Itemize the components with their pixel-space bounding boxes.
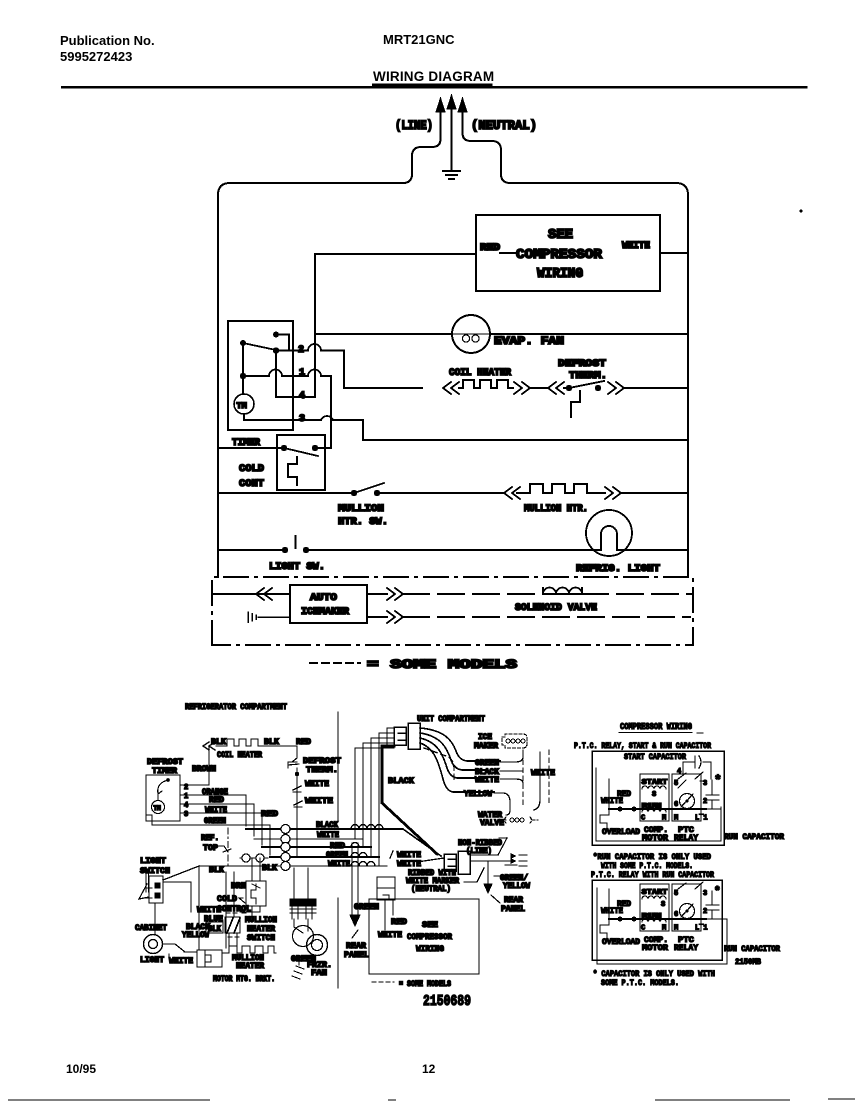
svg-text:= SOME MODELS: = SOME MODELS	[399, 980, 451, 989]
refrig light filament	[601, 526, 617, 550]
svg-text:P.T.C. RELAY WITH RUN CAPACITO: P.T.C. RELAY WITH RUN CAPACITOR	[591, 870, 715, 880]
svg-text:BRN: BRN	[231, 882, 246, 891]
wire line-side from plug to left rail	[218, 128, 441, 577]
box SEE COMPRESSOR WIRING	[476, 215, 660, 291]
inner return loop b1	[596, 768, 721, 841]
terminal 4 wire red	[183, 804, 254, 836]
evap fan motor	[452, 315, 490, 353]
timer terminal 4 wire	[276, 351, 315, 398]
neutral pointer line	[464, 868, 484, 882]
svg-text:WHITE: WHITE	[169, 957, 193, 966]
light switch contacts	[282, 547, 288, 553]
mullion heater switch contacts	[351, 490, 357, 496]
svg-text:M: M	[662, 815, 666, 823]
svg-text:WHITE: WHITE	[197, 906, 221, 915]
svg-text:COIL HEATER: COIL HEATER	[449, 367, 512, 379]
light switch actuator	[295, 536, 297, 548]
riser to connector pin2	[379, 733, 394, 866]
svg-text:= SOME MODELS: = SOME MODELS	[367, 658, 518, 672]
svg-text:RED: RED	[391, 918, 407, 927]
svg-text:S: S	[652, 791, 656, 799]
svg-text:4: 4	[677, 768, 681, 776]
icemaker feed wire	[212, 593, 290, 595]
svg-text:BROWN: BROWN	[192, 765, 216, 774]
svg-text:5995272423: 5995272423	[60, 49, 132, 64]
svg-text:(NEUTRAL): (NEUTRAL)	[411, 885, 451, 894]
svg-text:MULLION: MULLION	[245, 916, 277, 925]
harness row RED	[262, 846, 371, 848]
svg-text:BLACK: BLACK	[316, 821, 338, 830]
comp motor box 2	[640, 884, 669, 931]
svg-text:MAKER: MAKER	[474, 742, 498, 751]
svg-text:YELLOW: YELLOW	[503, 882, 530, 891]
bottom scan artifact line	[8, 1099, 855, 1100]
defrost thermostat pigtail	[571, 391, 580, 417]
svg-text:COLD: COLD	[217, 895, 237, 904]
riser to connector pin5	[355, 748, 394, 839]
timer terminal 1 wire with hops	[243, 370, 331, 448]
svg-text:SWITCH: SWITCH	[140, 867, 170, 876]
svg-text:2150689: 2150689	[423, 993, 471, 1010]
start winding coil	[642, 786, 666, 789]
svg-text:(NEUTRAL): (NEUTRAL)	[471, 118, 537, 133]
cold control contacts	[281, 445, 287, 451]
wire mullion heater to right rail	[621, 492, 688, 494]
svg-text:COMPRESSOR: COMPRESSOR	[407, 932, 453, 942]
svg-text:THERM.: THERM.	[306, 766, 338, 775]
svg-text:RED: RED	[296, 738, 311, 747]
power plug prong middle (ground)	[451, 110, 453, 127]
TOP SCHEMATIC placeholder	[212, 95, 803, 672]
run capacitor 2	[706, 891, 719, 918]
green ground wires to rear panel	[352, 843, 358, 915]
cabinet light leads	[163, 944, 197, 952]
wire light to right rail	[632, 549, 688, 551]
svg-text:WHITE: WHITE	[305, 780, 329, 789]
svg-text:WHITE: WHITE	[317, 831, 339, 840]
brown wire vertical	[208, 746, 210, 785]
svg-text:REF.: REF.	[201, 834, 219, 843]
relay internal contacts	[678, 768, 686, 788]
ptc disc 2	[680, 904, 695, 919]
svg-text:10/95: 10/95	[66, 1062, 96, 1076]
svg-text:RED: RED	[617, 790, 631, 799]
light switch leads	[155, 866, 199, 934]
svg-text:WHITE: WHITE	[531, 769, 555, 778]
svg-text:FAN: FAN	[311, 969, 327, 978]
svg-text:LIGHT: LIGHT	[140, 857, 166, 866]
timer internal contact dots	[273, 332, 279, 338]
timer switch arm	[243, 343, 276, 350]
start winding coil 2	[642, 896, 666, 899]
wire defrost to right rail	[624, 387, 688, 389]
cord lines to plug end	[470, 855, 517, 865]
timer motor TM	[234, 394, 254, 414]
freezer fan motor	[307, 935, 328, 956]
dashed wire to solenoid	[403, 593, 541, 595]
cold control box (pictorial)	[246, 881, 266, 906]
svg-text:2: 2	[703, 798, 707, 806]
svg-text:4: 4	[299, 391, 305, 402]
water valve connector	[505, 817, 532, 823]
svg-text:C: C	[641, 925, 645, 933]
power plug prong LINE	[440, 113, 442, 128]
mullion heater switch box	[225, 917, 240, 933]
coil heater connector chevron	[203, 742, 215, 750]
small lamp component box	[377, 877, 395, 900]
svg-text:YELLOW: YELLOW	[182, 931, 209, 940]
svg-text:WHITE: WHITE	[328, 860, 350, 869]
svg-text:REFRIGERATOR COMPARTMENT: REFRIGERATOR COMPARTMENT	[185, 702, 287, 712]
svg-text:WHITE: WHITE	[397, 851, 421, 860]
defrost timer box	[146, 775, 180, 821]
icemaker ground symbol	[248, 612, 290, 622]
svg-text:M: M	[674, 815, 678, 823]
connector bumps column1	[281, 825, 290, 871]
start capacitor symbol	[683, 756, 711, 779]
white wire cabinet to mullion	[169, 952, 197, 958]
timer terminal 2 wire with hop	[276, 344, 344, 388]
svg-text:OVERLOAD: OVERLOAD	[602, 828, 640, 837]
boxed BLK	[206, 922, 223, 933]
coil heater element	[459, 380, 513, 388]
harness row WHITE	[254, 838, 363, 840]
svg-text:DEFROST: DEFROST	[558, 358, 606, 370]
wire to red corner	[264, 746, 297, 758]
overload zigzag b2	[600, 919, 609, 939]
coil heater connector chevron left	[443, 382, 459, 394]
dashed wire solenoid to right	[582, 593, 693, 595]
relay internal contacts 2	[678, 882, 703, 889]
svg-text:MULLION: MULLION	[338, 503, 384, 515]
wire left rail to cold control	[218, 447, 281, 449]
svg-text:WHITE: WHITE	[305, 797, 333, 806]
wire light switch line	[218, 549, 586, 551]
green/yellow wire with arrow to rear panel	[488, 862, 500, 884]
mullion heater switch arm	[354, 483, 384, 493]
legend dashes lower	[372, 981, 394, 983]
wire mullion heater line left	[218, 492, 351, 494]
water valve drop wire	[523, 750, 549, 808]
svg-text:COLD: COLD	[239, 463, 264, 475]
defrost timer motor TM	[152, 801, 165, 814]
svg-text:M: M	[674, 925, 678, 933]
run capacitor 1	[706, 780, 719, 808]
comp motor box 1	[640, 774, 669, 821]
cold control bumps row	[240, 857, 268, 859]
svg-text:SEE: SEE	[422, 920, 438, 930]
svg-text:RELAY: RELAY	[674, 834, 698, 843]
yellow wire	[494, 793, 510, 815]
icemaker wires to right	[500, 750, 523, 783]
svg-text:3: 3	[184, 811, 188, 819]
svg-text:COMPRESSOR WIRING: COMPRESSOR WIRING	[620, 722, 692, 732]
svg-text:WHITE: WHITE	[475, 776, 499, 785]
svg-text:DEFROST: DEFROST	[303, 757, 341, 766]
riser to connector pin4	[363, 743, 394, 847]
svg-text:WHITE: WHITE	[622, 241, 650, 252]
svg-text:BLK: BLK	[209, 866, 224, 875]
cold control lower leads	[229, 906, 260, 953]
mullion heater connector chevron left	[504, 487, 520, 499]
svg-text:6: 6	[674, 801, 678, 809]
svg-text:PANEL: PANEL	[501, 905, 525, 914]
svg-text:WIRING: WIRING	[416, 944, 444, 954]
wire from switch to mullion heater	[377, 492, 504, 494]
svg-text:SOLENOID VALVE: SOLENOID VALVE	[515, 602, 597, 614]
svg-text:YELLOW: YELLOW	[464, 790, 492, 799]
svg-text:RED: RED	[617, 900, 631, 909]
svg-text:RELAY: RELAY	[674, 944, 698, 953]
non-ribbed pointer	[498, 838, 507, 855]
legend dashes	[310, 662, 360, 664]
harness row GREEN	[270, 856, 379, 858]
svg-text:*: *	[714, 886, 721, 898]
solenoid valve coil	[543, 588, 582, 594]
svg-text:CABINET: CABINET	[135, 924, 167, 933]
svg-text:MOTOR MTG. BRKT.: MOTOR MTG. BRKT.	[213, 975, 275, 984]
heavy black supply wire	[382, 746, 437, 854]
cold control leads	[252, 858, 260, 881]
fan leads	[294, 868, 308, 933]
svg-text:5: 5	[674, 780, 678, 788]
svg-text:ICEMAKER: ICEMAKER	[301, 606, 350, 618]
svg-text:THERM.: THERM.	[569, 370, 607, 382]
green wire from timer case	[152, 821, 270, 855]
long vertical trunk left	[199, 866, 234, 949]
svg-text:RED: RED	[261, 810, 278, 819]
svg-text:L‾1: L‾1	[695, 924, 708, 933]
svg-text:WHITE: WHITE	[378, 931, 402, 940]
svg-text:2: 2	[298, 345, 304, 356]
svg-text:2150MB: 2150MB	[735, 958, 761, 967]
icemaker output chevron right top	[367, 588, 403, 600]
power cord connector	[444, 854, 456, 871]
svg-text:SWITCH: SWITCH	[247, 934, 275, 943]
svg-text:COIL HEATER: COIL HEATER	[217, 751, 262, 760]
compartment divider line	[337, 712, 339, 988]
ptc disc	[680, 794, 695, 809]
icemaker harness bundle curves	[420, 728, 500, 761]
wire RED to compressor box	[315, 253, 476, 255]
svg-text:5: 5	[674, 890, 678, 898]
svg-text:EVAP. FAN: EVAP. FAN	[494, 336, 564, 348]
svg-text:LIGHT SW.: LIGHT SW.	[269, 561, 325, 573]
riser stub pin1	[387, 728, 394, 746]
mullion heater element	[517, 484, 605, 493]
mullion heater connector chevron right	[605, 487, 621, 499]
svg-text:3: 3	[299, 414, 305, 425]
svg-text:COMPRESSOR: COMPRESSOR	[516, 248, 603, 263]
stray dot top right	[800, 210, 803, 213]
svg-text:MOTOR: MOTOR	[642, 834, 668, 843]
detail box 2 outer	[592, 880, 722, 960]
cold control pointer	[239, 898, 245, 903]
svg-text:WIRING: WIRING	[537, 267, 583, 282]
wire WHITE from box to right rail	[660, 252, 688, 254]
svg-text:RED: RED	[480, 243, 500, 254]
main wire box2	[609, 918, 706, 920]
run winding coil	[642, 809, 666, 812]
dashed harness segment	[424, 748, 454, 782]
plug end prongs	[519, 855, 527, 866]
svg-text:GREEN: GREEN	[475, 759, 499, 768]
node: red feed vertical	[314, 254, 316, 397]
svg-text:HTR. SW.: HTR. SW.	[338, 516, 388, 528]
cold control bellows	[288, 457, 297, 485]
svg-text:PANEL: PANEL	[344, 951, 369, 960]
wire hop arcs over risers	[351, 825, 383, 867]
wire evap fan line	[315, 333, 688, 335]
svg-text:MRT21GNC: MRT21GNC	[383, 32, 455, 47]
white wires to cord	[390, 851, 444, 862]
fan ground hatch	[292, 957, 304, 979]
dashes near switch	[226, 913, 248, 937]
hop on terminal 3 wire	[321, 416, 333, 420]
icemaker connector strip	[502, 734, 527, 748]
svg-text:REAR: REAR	[504, 896, 523, 905]
svg-text:RUN CAPACITOR: RUN CAPACITOR	[724, 833, 784, 842]
component leads down	[385, 900, 393, 930]
harness row BLACK	[246, 829, 441, 856]
svg-text:3: 3	[703, 890, 707, 898]
svg-text:4: 4	[184, 802, 188, 810]
icemaker output chevron right bottom	[367, 611, 403, 623]
mullion heater element pictorial	[222, 946, 276, 953]
svg-text:12: 12	[422, 1062, 436, 1076]
timer cam arm	[166, 778, 170, 782]
light switch body	[149, 876, 163, 903]
defrost thermostat arm	[569, 381, 604, 388]
svg-text:CONT: CONT	[239, 478, 264, 490]
rear panel pointer r	[491, 895, 500, 903]
svg-text:Publication No.: Publication No.	[60, 33, 155, 48]
defrost circuit chevron right	[608, 382, 624, 394]
harness row WHITE2	[199, 865, 387, 867]
defrost thermostat contacts	[566, 385, 572, 391]
ptc relay box 1	[672, 774, 701, 821]
cabinet light lamp	[144, 935, 163, 954]
ptc relay box 2	[672, 884, 701, 931]
svg-text:L‾1: L‾1	[695, 814, 708, 823]
svg-text:1: 1	[299, 368, 305, 379]
svg-text:BLK: BLK	[208, 925, 221, 934]
svg-text:HEATER: HEATER	[247, 925, 275, 934]
svg-text:START CAPACITOR: START CAPACITOR	[624, 752, 687, 762]
svg-text:HEATER: HEATER	[236, 962, 264, 971]
wire neutral-side from plug to right rail	[463, 128, 689, 577]
svg-text:ICE: ICE	[478, 733, 492, 742]
svg-text:P.T.C. RELAY, START & RUN CAPA: P.T.C. RELAY, START & RUN CAPACITOR	[574, 741, 712, 751]
detail box 1 outer	[592, 751, 724, 845]
overload zigzag b1	[600, 809, 609, 829]
defrost therm junction dot	[295, 772, 299, 776]
svg-text:REAR: REAR	[346, 942, 366, 951]
svg-text:1: 1	[184, 793, 188, 801]
timer terminal 3 wire from TM	[244, 414, 688, 440]
svg-text:BLK: BLK	[262, 864, 277, 873]
svg-text:WIRING DIAGRAM: WIRING DIAGRAM	[373, 69, 494, 84]
timer terminal ticks	[180, 785, 183, 813]
svg-text:LIGHT: LIGHT	[140, 956, 164, 965]
coil heater connector chevron right	[514, 382, 530, 394]
svg-text:GREEN: GREEN	[326, 851, 348, 860]
box AUTO ICEMAKER	[290, 585, 367, 623]
svg-text:UNIT COMPARTMENT: UNIT COMPARTMENT	[417, 714, 485, 724]
cold control box	[277, 435, 325, 490]
header rule	[62, 86, 806, 89]
svg-text:RUN CAPACITOR: RUN CAPACITOR	[724, 945, 780, 954]
svg-text:BLACK: BLACK	[388, 776, 415, 786]
fan connector block	[290, 899, 316, 906]
inner return loop b2	[597, 888, 727, 964]
box SEE COMPRESSOR WIRING (lower)	[369, 899, 479, 974]
svg-text:S: S	[661, 901, 665, 909]
svg-text:MOTOR: MOTOR	[642, 944, 668, 953]
svg-text:TM: TM	[237, 401, 247, 411]
svg-text:*: *	[714, 773, 722, 788]
rear panel pointer	[352, 930, 358, 938]
svg-text:TM: TM	[154, 805, 162, 812]
timer internal wires	[276, 335, 289, 351]
dashed some-models box	[212, 577, 693, 645]
svg-text:SOME P.T.C. MODELS.: SOME P.T.C. MODELS.	[601, 978, 679, 988]
FOOTER	[66, 1062, 436, 1076]
white feed vertical b1	[608, 779, 610, 809]
svg-text:TOP: TOP	[203, 844, 218, 853]
defrost connector chevron	[548, 382, 564, 394]
ground symbol	[443, 171, 460, 179]
svg-text:2: 2	[703, 908, 707, 916]
terminal 2 wire to brown	[183, 784, 209, 786]
timer box	[228, 321, 293, 430]
svg-text:AUTO: AUTO	[310, 592, 337, 604]
dashed wire bottom output	[403, 616, 690, 618]
white feed vertical b2	[608, 889, 610, 919]
timer case ground tab	[146, 815, 152, 821]
svg-text:M: M	[662, 925, 666, 933]
svg-text:DEFROST: DEFROST	[147, 758, 183, 767]
icemaker connector chevron left	[256, 588, 272, 600]
wire to defrost thermostat	[530, 387, 566, 389]
terminal 3 wire white	[183, 813, 262, 845]
riser to connector pin3	[371, 738, 394, 857]
svg-text:RED: RED	[330, 842, 345, 851]
BOTTOM DIAGRAM placeholder	[135, 702, 555, 1010]
wire coil heater feed	[344, 387, 422, 389]
svg-text:(LINE): (LINE)	[395, 118, 433, 133]
cold control switch arm	[284, 448, 318, 456]
power plug prong NEUTRAL	[462, 113, 464, 128]
svg-text:REFRIG. LIGHT: REFRIG. LIGHT	[576, 563, 660, 575]
refrig light bulb	[586, 510, 632, 556]
mullion heater connector	[197, 950, 222, 967]
defrost thermostat (pictorial)	[288, 758, 299, 775]
coil heater element (pictorial)	[216, 739, 264, 746]
svg-text:6: 6	[674, 911, 678, 919]
svg-text:SEE: SEE	[548, 228, 573, 243]
run winding coil 2	[642, 919, 666, 922]
white wire vertical with splice	[296, 775, 298, 856]
publication number text	[60, 32, 494, 84]
COMPRESSOR DETAIL placeholder	[574, 722, 784, 988]
ground wire from middle prong	[451, 127, 453, 170]
main harness connector body	[394, 727, 406, 745]
ref top pointer	[219, 846, 231, 852]
svg-text:OVERLOAD: OVERLOAD	[602, 938, 640, 947]
svg-text:C: C	[641, 815, 645, 823]
svg-text:MULLION HTR.: MULLION HTR.	[524, 503, 588, 515]
